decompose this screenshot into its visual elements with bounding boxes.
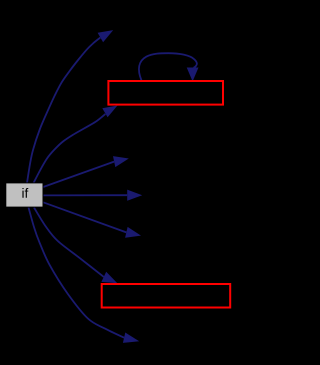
node if (current) [6,183,43,207]
arrowhead if -> red box 2 [101,272,117,283]
arrowhead if -> red box 1 [102,106,117,118]
wire: edge if -> node 3 [43,162,114,187]
wire: edge if -> node 4 [43,194,127,196]
red box 2 (truncated node) [102,284,231,308]
arrowhead if -> node 3 [113,156,129,167]
wire: edge if -> red box 1 [34,114,106,183]
wire: edge if -> top node [27,38,100,183]
wire: edge if -> red box 2 [34,208,104,277]
wire: edge if -> bottom node [29,208,125,338]
wire: edge if -> node 5 [43,202,126,232]
red box 1 (truncated node) [108,81,223,105]
arrowhead if -> node 4 [127,190,142,201]
arrowhead if -> node 5 [125,227,141,238]
label if [22,188,28,198]
arrowhead if -> bottom node [123,333,139,343]
arrowhead self loop [187,68,199,82]
arrowhead if -> top node [98,30,114,42]
wire: self loop on red box 1 [139,53,197,80]
